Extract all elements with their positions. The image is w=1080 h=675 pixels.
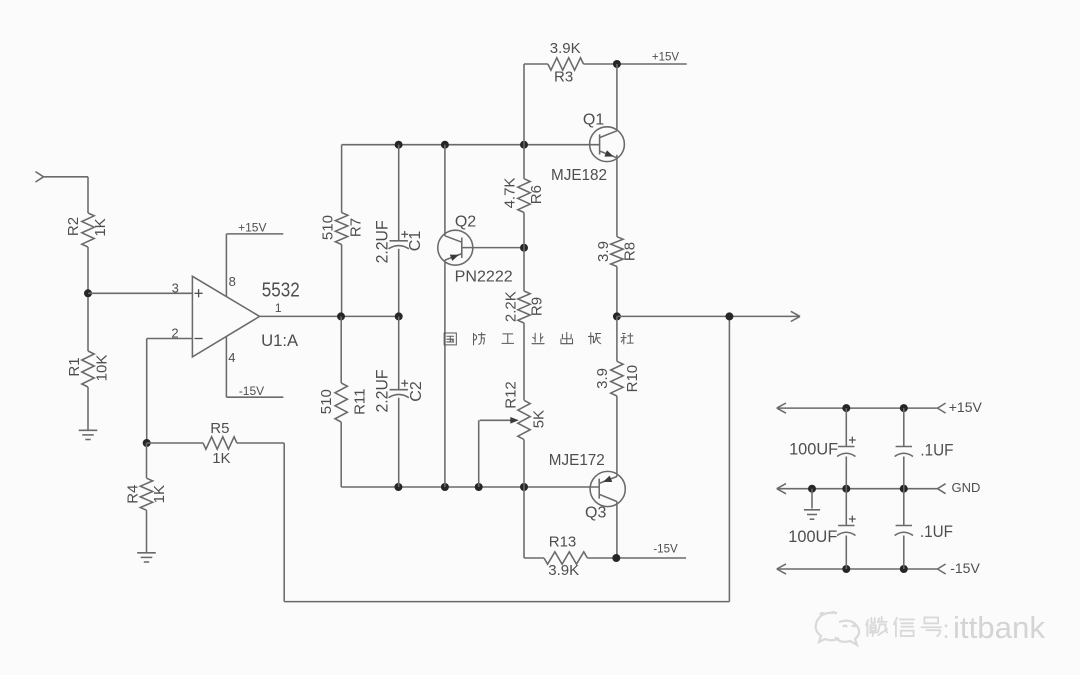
PSU -15V rail	[777, 568, 938, 570]
wire R6 to R9	[523, 213, 525, 292]
capacitor 100UF top	[837, 408, 856, 489]
label R8	[622, 242, 639, 261]
node top rail Q2 collector	[441, 141, 449, 149]
label MJE172	[549, 452, 605, 469]
PSU GND chevron	[938, 484, 946, 494]
label 1K (R5)	[212, 450, 230, 467]
PSU GND left arrow	[777, 484, 786, 494]
wire Q1 collector	[616, 64, 618, 131]
node Q2 base R6/R9	[520, 244, 528, 252]
op-amp plus symbol	[195, 289, 203, 297]
node -15V Q3 collector	[612, 554, 620, 562]
capacitor .1UF bottom	[895, 489, 913, 569]
svg-text:ittbank: ittbank	[953, 610, 1045, 645]
node PSU gnd C100	[842, 485, 850, 493]
label 2.2UF (C2)	[373, 370, 392, 413]
node bottom rail Q2 emitter	[441, 483, 449, 491]
wire R5 right + feedback loop	[237, 316, 730, 601]
label 5532	[262, 280, 300, 302]
node output R7/R11	[337, 312, 345, 320]
label R2	[65, 217, 82, 236]
wire R7 top	[341, 145, 343, 213]
label 1K (R4)	[151, 485, 168, 503]
label C2	[408, 381, 425, 402]
node op-amp output C1/C2	[395, 312, 403, 320]
PSU -15V chevron	[938, 564, 946, 574]
wire R2 to R1	[87, 247, 89, 351]
top bias rail	[342, 144, 600, 146]
label 3.9 (R10)	[594, 368, 611, 389]
svg-text:R8: R8	[622, 242, 639, 261]
svg-text:R10: R10	[624, 365, 641, 393]
resistor R10	[611, 361, 623, 396]
wire pin 2	[147, 339, 193, 444]
capacitor C1	[389, 231, 409, 249]
capacitor 100UF bottom	[837, 489, 856, 569]
svg-text:C2: C2	[408, 381, 425, 402]
svg-text:R1: R1	[66, 357, 83, 376]
label -15V (bottom)	[653, 543, 678, 555]
ground (R4)	[137, 553, 156, 562]
watermark text 国防工业出版社	[444, 332, 633, 344]
WeChat logo	[816, 612, 859, 645]
label -15V (op-amp)	[239, 384, 264, 398]
wire output to R10	[616, 316, 618, 361]
node +15V Q1 collector	[613, 60, 621, 68]
svg-text:3.9: 3.9	[594, 368, 611, 389]
wire R3 left vertical	[523, 64, 525, 145]
svg-text:3.9K: 3.9K	[548, 562, 579, 579]
svg-text:1K: 1K	[92, 218, 109, 236]
resistor R4	[140, 478, 152, 510]
svg-text:U1:A: U1:A	[261, 331, 299, 350]
pin 2 label	[171, 326, 178, 341]
node PSU +15 C100	[842, 404, 850, 412]
svg-text:100UF: 100UF	[788, 527, 837, 546]
svg-text:4.7K: 4.7K	[501, 178, 518, 209]
+15V stub (op-amp)	[226, 233, 283, 235]
svg-text:R13: R13	[549, 534, 577, 551]
wire R8 to output	[616, 267, 618, 317]
-15V stub (op-amp)	[226, 396, 283, 398]
svg-text:GND: GND	[952, 480, 981, 495]
capacitor .1UF top	[895, 408, 913, 489]
svg-text:1: 1	[275, 301, 282, 315]
svg-text::: :	[942, 614, 949, 644]
wire Q1 emitter to R8	[616, 155, 618, 237]
node top rail R6	[520, 141, 528, 149]
label -15V (PSU)	[950, 560, 980, 576]
capacitor C2	[389, 380, 409, 398]
resistor R1	[82, 351, 94, 387]
svg-text:5532: 5532	[262, 280, 300, 302]
svg-text:+15V: +15V	[652, 52, 680, 64]
wire R13 to -15V	[587, 557, 686, 559]
label 4.7K (R6)	[501, 178, 518, 209]
wire R11 top	[340, 316, 342, 383]
wire R1 to ground	[87, 387, 89, 430]
transistor Q1	[590, 127, 625, 162]
label 100UF (top)	[789, 440, 838, 459]
wire R9 to R12	[523, 323, 525, 400]
node inverting junction	[143, 439, 151, 447]
svg-text:R7: R7	[348, 218, 365, 237]
svg-text:3.9K: 3.9K	[550, 40, 581, 57]
label R12	[502, 381, 519, 409]
output arrow	[791, 311, 800, 321]
label 510 (R11)	[318, 389, 335, 414]
wire C2 bottom	[398, 398, 400, 487]
wire Q2 collector	[444, 145, 446, 236]
wire pin 8 to +15V	[225, 234, 227, 297]
label R4	[124, 485, 141, 504]
svg-text:PN2222: PN2222	[455, 269, 513, 286]
label +15V (op-amp)	[238, 221, 266, 235]
bottom bias rail	[341, 486, 599, 488]
watermark 微信号	[866, 617, 941, 637]
PSU ground symbol	[804, 489, 820, 520]
node top rail C1	[395, 141, 403, 149]
node output feedback	[725, 312, 733, 320]
svg-text:1K: 1K	[151, 485, 168, 503]
svg-text:4: 4	[228, 350, 235, 365]
wire Q2 base	[462, 247, 524, 249]
transistor Q3	[590, 471, 625, 506]
label Q1	[583, 111, 604, 128]
ground (R1)	[79, 430, 98, 439]
svg-text:Q2: Q2	[455, 214, 476, 231]
label .1UF (bottom)	[920, 522, 953, 541]
pin 3 label	[172, 281, 179, 296]
label 3.9 (R8)	[595, 241, 612, 262]
resistor R13	[544, 552, 587, 564]
resistor R8	[611, 237, 623, 267]
svg-text:.1UF: .1UF	[920, 522, 953, 541]
svg-text:3.9: 3.9	[595, 241, 612, 262]
potentiometer R12	[518, 400, 530, 439]
PSU +15V left arrow	[777, 403, 786, 413]
node PSU gnd C01	[900, 485, 908, 493]
resistor R2	[82, 213, 94, 247]
wire R3 to +15V	[584, 63, 687, 65]
wire R6 top	[523, 145, 525, 179]
label C1	[407, 231, 424, 252]
wire to pin 3	[88, 292, 192, 294]
resistor R6	[518, 179, 530, 213]
wire R12 bottom	[523, 440, 525, 488]
R12 wiper arrow	[479, 417, 519, 487]
svg-text:Q3: Q3	[585, 505, 606, 522]
resistor R7	[335, 213, 347, 245]
label 3.9K (R3)	[550, 40, 581, 57]
wire R3 left	[524, 63, 548, 65]
pin 4 label	[228, 350, 235, 365]
op-amp minus symbol	[195, 338, 203, 340]
wire op-amp output	[260, 315, 399, 317]
label 510 (R7)	[320, 215, 337, 240]
wire input to R2	[44, 177, 89, 213]
svg-text:Q1: Q1	[583, 111, 604, 128]
output wire	[617, 315, 799, 317]
PSU -15V left arrow	[777, 564, 786, 574]
PSU GND rail	[777, 488, 938, 490]
wire R7 bottom	[341, 245, 343, 317]
label GND	[952, 480, 981, 495]
svg-text:1K: 1K	[212, 450, 230, 467]
pin 8 label	[229, 274, 236, 289]
label R10	[624, 365, 641, 393]
label R7	[348, 218, 365, 237]
wire R5 left	[147, 442, 203, 444]
label 5K (R12)	[531, 410, 548, 428]
resistor R5	[203, 437, 237, 449]
wire Q3 collector	[616, 502, 618, 559]
wire R10 to Q3	[616, 396, 618, 477]
wire Q2 emitter	[444, 260, 446, 487]
svg-text:R5: R5	[210, 420, 229, 437]
wire R13 left vertical	[523, 487, 525, 558]
svg-text:-15V: -15V	[239, 384, 264, 398]
node PSU gnd stub	[808, 485, 816, 493]
svg-text:3: 3	[172, 281, 179, 296]
label 100UF (bottom)	[788, 527, 837, 546]
svg-text:100UF: 100UF	[789, 440, 838, 459]
label 2.2K (R9)	[503, 291, 520, 322]
label R13	[549, 534, 577, 551]
node bottom rail wiper	[475, 483, 483, 491]
PSU +15V chevron	[938, 403, 946, 413]
wire C1 bottom	[398, 249, 400, 317]
svg-text:R9: R9	[528, 297, 545, 316]
node bottom rail R12	[520, 483, 528, 491]
svg-text:R2: R2	[65, 217, 82, 236]
node PSU +15 C01	[900, 404, 908, 412]
watermark ittbank	[953, 610, 1045, 645]
label R5	[210, 420, 229, 437]
label R9	[528, 297, 545, 316]
pin 1 label	[275, 301, 282, 315]
label +15V (top)	[652, 52, 680, 64]
node output R8/R10	[613, 312, 621, 320]
svg-text:+15V: +15V	[238, 221, 266, 235]
wire C1 top	[398, 145, 400, 241]
svg-text:10K: 10K	[94, 355, 111, 382]
wire pin 4 to -15V	[225, 336, 227, 397]
svg-text:+15V: +15V	[949, 399, 983, 415]
resistor R9	[518, 291, 530, 323]
svg-text:R12: R12	[502, 381, 519, 409]
svg-text:8: 8	[229, 274, 236, 289]
label MJE182	[551, 167, 607, 184]
label +15V (PSU)	[949, 399, 983, 415]
svg-text:2.2UF: 2.2UF	[373, 370, 392, 413]
op-amp U1 triangle	[192, 276, 259, 357]
svg-text:510: 510	[320, 215, 337, 240]
svg-text:510: 510	[318, 389, 335, 414]
transistor Q2	[438, 230, 473, 265]
svg-text:.1UF: .1UF	[920, 440, 953, 459]
label Q3	[585, 505, 606, 522]
svg-text:C1: C1	[407, 231, 424, 252]
label R3	[554, 69, 573, 86]
label U1:A	[261, 331, 299, 350]
label 3.9K (R13)	[548, 562, 579, 579]
svg-text:R4: R4	[124, 485, 141, 504]
label R6	[528, 185, 545, 204]
svg-text:-15V: -15V	[653, 543, 678, 555]
label 10K (R1)	[94, 355, 111, 382]
wire inverting node to R4	[146, 443, 148, 478]
label .1UF (top)	[920, 440, 953, 459]
label R11	[352, 388, 369, 414]
input connector	[36, 172, 44, 182]
wire R11 bottom	[340, 422, 342, 487]
svg-text:R11: R11	[352, 388, 369, 414]
label 1K (R2)	[92, 218, 109, 236]
node PSU -15 C100	[842, 565, 850, 573]
node noninverting junction	[84, 289, 92, 297]
node PSU -15 C01	[900, 565, 908, 573]
svg-text:2.2K: 2.2K	[503, 291, 520, 322]
label 2.2UF (C1)	[373, 220, 392, 263]
svg-text:R3: R3	[554, 69, 573, 86]
resistor R11	[335, 383, 347, 422]
svg-text:MJE182: MJE182	[551, 167, 607, 184]
label R1	[66, 357, 83, 376]
wire R4 to ground	[146, 510, 148, 552]
node bottom rail C2	[394, 483, 402, 491]
svg-text:2.2UF: 2.2UF	[373, 220, 392, 263]
watermark colon	[942, 614, 949, 644]
PSU +15V rail	[777, 407, 938, 409]
label Q2	[455, 214, 476, 231]
resistor R3	[548, 58, 584, 70]
label PN2222	[455, 269, 513, 286]
svg-text:MJE172: MJE172	[549, 452, 605, 469]
wire R13 left	[524, 557, 544, 559]
svg-text:-15V: -15V	[950, 560, 980, 576]
wire C2 top	[398, 316, 400, 389]
svg-text:R6: R6	[528, 185, 545, 204]
svg-text:5K: 5K	[531, 410, 548, 428]
